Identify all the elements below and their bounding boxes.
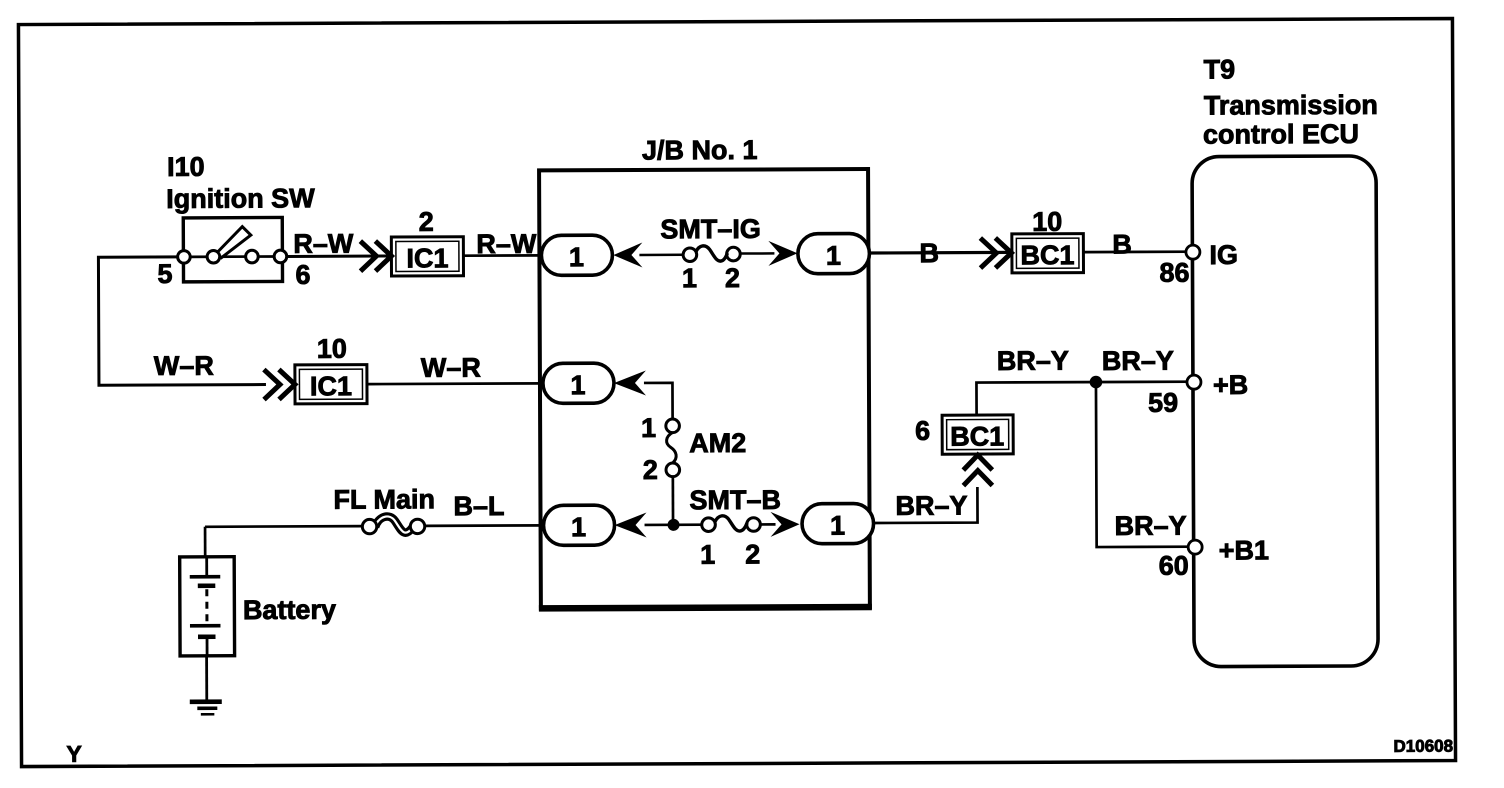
svg-text:W–R: W–R bbox=[154, 351, 214, 381]
svg-text:BC1: BC1 bbox=[1020, 240, 1074, 270]
J/B connector oval 1 (row 3 left) bbox=[543, 505, 614, 545]
svg-text:10: 10 bbox=[1032, 207, 1062, 237]
fusible link FL Main bbox=[362, 516, 424, 533]
svg-text:10: 10 bbox=[317, 334, 347, 364]
svg-text:IC1: IC1 bbox=[406, 243, 448, 273]
svg-text:Transmission: Transmission bbox=[1204, 90, 1378, 121]
arrow right (row3) bbox=[770, 512, 799, 537]
wire: elbow to fuse AM2 bbox=[644, 383, 673, 420]
junction node (AM2 / SMT-B) bbox=[668, 519, 680, 531]
wire: junction down to ECU pin +B1 (BR-Y) bbox=[1096, 382, 1189, 547]
svg-text:+B: +B bbox=[1213, 370, 1248, 400]
svg-text:1: 1 bbox=[641, 413, 656, 443]
wire: J/B to BC1 riser (BR-Y) bbox=[873, 487, 977, 523]
svg-text:2: 2 bbox=[745, 539, 760, 569]
svg-text:1: 1 bbox=[571, 512, 586, 542]
arrow left (row3) bbox=[614, 512, 646, 537]
svg-text:1: 1 bbox=[700, 540, 715, 570]
svg-text:86: 86 bbox=[1159, 258, 1189, 288]
svg-text:T9: T9 bbox=[1204, 54, 1236, 84]
svg-text:B–L: B–L bbox=[453, 491, 504, 521]
svg-text:2: 2 bbox=[643, 455, 658, 485]
arrow left (row2) bbox=[614, 370, 646, 395]
svg-text:2: 2 bbox=[419, 207, 434, 237]
svg-text:2: 2 bbox=[725, 263, 740, 293]
pin +B terminal 59 bbox=[1187, 375, 1201, 389]
wire: IC1 to J/B oval (W-R) bbox=[367, 382, 546, 385]
connector IC1 pin2 bbox=[391, 237, 463, 276]
svg-text:IC1: IC1 bbox=[310, 371, 352, 401]
pin IG terminal 86 bbox=[1186, 245, 1200, 259]
svg-text:6: 6 bbox=[295, 260, 310, 290]
J/B connector oval 1 (row 1 left) bbox=[541, 235, 612, 275]
connector BC1 pin10 bbox=[1012, 234, 1084, 273]
svg-text:I10: I10 bbox=[167, 152, 205, 182]
junction block J/B No. 1 bbox=[539, 169, 870, 608]
svg-text:R–W: R–W bbox=[293, 229, 354, 259]
svg-text:FL Main: FL Main bbox=[333, 484, 435, 514]
chevron arrows into IC1 row2 bbox=[264, 369, 295, 399]
fuse SMT-IG bbox=[683, 246, 740, 262]
wire: BC1 to ECU pin IG (B) bbox=[1083, 250, 1187, 253]
transmission control ECU T9 bbox=[1192, 156, 1378, 667]
pin +B1 terminal 60 bbox=[1188, 540, 1202, 554]
svg-text:SMT–IG: SMT–IG bbox=[660, 214, 761, 244]
svg-text:W–R: W–R bbox=[421, 353, 481, 383]
wire to fuse SMT-IG bbox=[639, 254, 683, 257]
svg-text:IG: IG bbox=[1209, 240, 1238, 270]
svg-text:B: B bbox=[919, 238, 939, 268]
fuse AM2 bbox=[666, 419, 680, 477]
svg-text:1: 1 bbox=[830, 511, 845, 541]
J/B connector oval 1 (row 3 right) bbox=[802, 503, 874, 543]
svg-text:Y: Y bbox=[66, 741, 81, 767]
svg-text:BR–Y: BR–Y bbox=[1114, 511, 1186, 541]
arrow left (row1) bbox=[613, 242, 642, 267]
ground bbox=[190, 702, 222, 715]
wire: switch pin6 to connector IC1 (R-W) bbox=[286, 255, 391, 258]
ignition switch I10 bbox=[177, 217, 286, 281]
svg-text:BC1: BC1 bbox=[950, 421, 1004, 451]
connector BC1 pin6 bbox=[942, 415, 1013, 454]
svg-text:1: 1 bbox=[682, 263, 697, 293]
wire: J/B to BC1 (B) bbox=[869, 251, 1011, 255]
wire: battery riser bbox=[204, 527, 207, 558]
connector IC1 pin10 bbox=[295, 365, 367, 404]
svg-text:BR–Y: BR–Y bbox=[1102, 346, 1174, 376]
svg-text:control ECU: control ECU bbox=[1203, 119, 1359, 150]
wire fuse to arrow bbox=[740, 252, 774, 255]
svg-text:+B1: +B1 bbox=[1219, 535, 1269, 565]
chevron arrows into IC1 bbox=[360, 241, 391, 271]
chevron arrows up into BC1 bbox=[963, 455, 992, 486]
svg-text:BR–Y: BR–Y bbox=[997, 346, 1069, 376]
wire: ignition SW pin5 to W-R row (left loop) bbox=[98, 257, 266, 386]
svg-text:5: 5 bbox=[157, 259, 172, 289]
svg-text:AM2: AM2 bbox=[689, 428, 746, 458]
wire: BC1 up and right to ECU pin +B (BR-Y) bbox=[976, 382, 1189, 414]
J/B connector oval 1 (row 2) bbox=[543, 363, 614, 403]
wire arrow to fuse SMT-B bbox=[645, 523, 702, 526]
svg-text:59: 59 bbox=[1148, 388, 1178, 418]
wire: AM2 to junction bbox=[671, 476, 674, 524]
svg-text:60: 60 bbox=[1159, 551, 1189, 581]
chevron arrows into BC1 bbox=[980, 238, 1011, 268]
wire: battery riser to J/B (B-L) bbox=[205, 525, 363, 528]
svg-text:BR–Y: BR–Y bbox=[895, 491, 967, 521]
fuse SMT-B bbox=[702, 516, 761, 532]
wire: IC1 to J/B (R-W) bbox=[463, 254, 545, 257]
junction node (+B / +B1) bbox=[1090, 376, 1103, 389]
svg-text:D10608: D10608 bbox=[1393, 737, 1453, 756]
wire fuse to arrow bbox=[761, 523, 776, 526]
svg-text:1: 1 bbox=[826, 241, 841, 271]
svg-text:Ignition SW: Ignition SW bbox=[166, 183, 315, 214]
battery bbox=[180, 557, 235, 656]
J/B connector oval 1 (row 1 right) bbox=[798, 234, 870, 274]
svg-text:R–W: R–W bbox=[476, 229, 537, 259]
wire: battery to ground bbox=[205, 656, 208, 702]
svg-text:1: 1 bbox=[569, 242, 584, 272]
arrow right (row1) bbox=[768, 241, 797, 266]
svg-text:J/B No. 1: J/B No. 1 bbox=[642, 135, 758, 165]
svg-text:B: B bbox=[1112, 229, 1132, 259]
svg-text:1: 1 bbox=[570, 370, 585, 400]
svg-text:Battery: Battery bbox=[243, 595, 336, 625]
svg-text:6: 6 bbox=[915, 416, 930, 446]
svg-text:SMT–B: SMT–B bbox=[689, 485, 781, 515]
